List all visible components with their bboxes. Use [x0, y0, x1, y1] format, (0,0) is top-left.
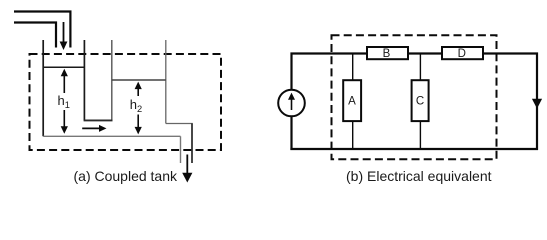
current source arrow	[288, 93, 295, 110]
branch C bottom stub	[419, 121, 421, 149]
branch A bottom stub	[352, 121, 354, 149]
wire B to D	[408, 52, 442, 54]
outlet pipe left wall	[180, 136, 182, 163]
branch A top stub	[352, 54, 354, 81]
wire D to right corner and down	[483, 54, 537, 151]
divider bottom (interconnection channel top)	[84, 119, 113, 121]
tank bottom	[43, 135, 180, 137]
h2 dimension up arrow	[135, 82, 142, 96]
dashed boundary of electrical equivalent	[332, 35, 497, 159]
inter-tank flow arrow	[82, 125, 106, 132]
inlet flow arrow	[60, 22, 68, 50]
water level line tank2	[112, 79, 166, 81]
water level line tank1	[43, 66, 84, 68]
tank1 left wall	[42, 40, 44, 136]
svg-text:D: D	[458, 48, 466, 60]
h2 dimension down arrow	[135, 115, 142, 135]
branch C top stub	[419, 54, 421, 81]
wire source top to node	[292, 54, 368, 90]
h1 dimension up arrow	[61, 69, 68, 93]
h1 dimension down arrow	[61, 110, 68, 134]
wire source bottom	[290, 116, 292, 150]
dashed boundary of coupled tank	[30, 54, 222, 150]
load current arrow	[532, 99, 542, 109]
tank2 left wall	[111, 40, 113, 120]
resistor A	[343, 80, 361, 121]
bottom wire	[290, 148, 538, 150]
svg-text:B: B	[383, 48, 391, 60]
outlet step	[166, 123, 193, 125]
tank2 right wall	[165, 40, 167, 124]
outlet pipe right wall	[191, 124, 193, 164]
svg-text:(a) Coupled tank: (a) Coupled tank	[74, 168, 179, 184]
tank1 right wall	[83, 40, 85, 120]
resistor D	[442, 47, 483, 59]
svg-text:A: A	[348, 96, 356, 108]
inlet pipe outer wall	[14, 12, 70, 48]
resistor C	[412, 80, 429, 121]
svg-text:C: C	[416, 96, 424, 108]
resistor B	[367, 47, 408, 59]
outlet flow arrow	[182, 155, 192, 183]
svg-text:(b) Electrical equivalent: (b) Electrical equivalent	[346, 168, 492, 184]
inlet pipe inner wall	[14, 23, 56, 48]
current source circle	[278, 90, 305, 117]
